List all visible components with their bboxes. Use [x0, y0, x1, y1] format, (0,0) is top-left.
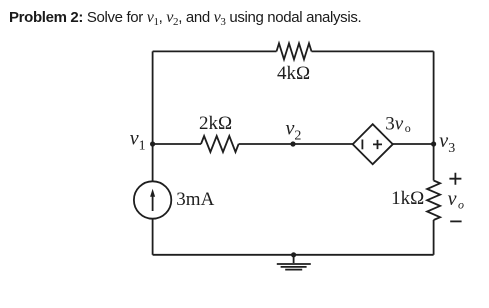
svg-text:vo: vo [448, 188, 464, 212]
svg-text:3mA: 3mA [176, 189, 214, 210]
svg-text:v2: v2 [286, 118, 302, 144]
current source 3mA: arrow head [150, 189, 155, 197]
dependent source 3vo: diamond [353, 124, 393, 164]
resistor 2kOhm (between v1 and v2) [201, 136, 239, 152]
wire: right rail from 1k resistor bottom to bottom-right corner [433, 220, 435, 255]
title: Problem 2 statement [9, 9, 361, 27]
ground symbol [277, 255, 311, 270]
wire: bottom rail [153, 254, 434, 256]
node v2 junction dot [290, 141, 295, 146]
svg-text:v1: v1 [130, 128, 146, 154]
svg-text:4kΩ: 4kΩ [277, 63, 310, 84]
svg-text:3vo: 3vo [385, 114, 410, 136]
resistor 4kOhm (top) [277, 43, 312, 59]
wire: left rail from current source bottom to bottom-left corner [152, 219, 154, 255]
wire: top rail left segment [153, 50, 277, 52]
wire: dependent source to node v3 [393, 143, 434, 145]
ground node junction dot [291, 252, 296, 257]
dependent source: minus-side bar [361, 140, 363, 150]
label minus sign below vo [450, 220, 461, 222]
dependent source: plus sign [373, 140, 382, 149]
svg-text:1kΩ: 1kΩ [391, 188, 424, 209]
label plus sign above vo [449, 173, 461, 185]
wire: right rail from top-right corner to 1k resistor top [433, 51, 435, 180]
svg-text:v3: v3 [439, 130, 455, 156]
wire: left rail from top-left corner down to current source top [152, 51, 154, 181]
node v1 junction dot [150, 141, 155, 146]
svg-text:2kΩ: 2kΩ [199, 113, 232, 134]
node v3 junction dot [431, 141, 436, 146]
current source 3mA: arrow shaft [152, 195, 154, 211]
wire: 2k resistor to dependent source [239, 143, 353, 145]
current source 3mA: circle [134, 181, 171, 218]
wire: node v1 to 2k resistor [153, 143, 201, 145]
resistor 1kOhm (right, vertical) [427, 181, 440, 221]
wire: top rail right segment [312, 50, 434, 52]
